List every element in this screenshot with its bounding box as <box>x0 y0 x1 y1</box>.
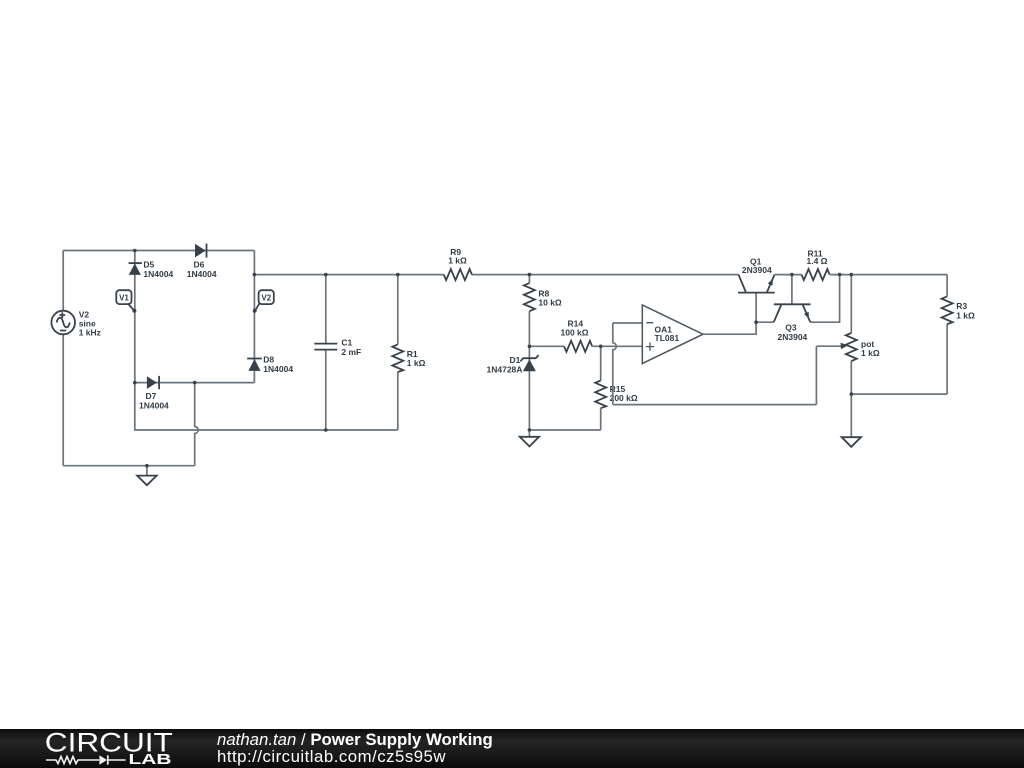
svg-text:200 kΩ: 200 kΩ <box>610 393 638 403</box>
wire bottom-right rail <box>851 393 947 395</box>
wire bottom-left rail <box>63 465 195 467</box>
CircuitLab logo <box>0 729 200 768</box>
wire Q3 base <box>791 275 793 305</box>
wire R11 right to rail corner <box>830 274 948 276</box>
transistor Q1 <box>738 292 775 294</box>
node junction dots <box>133 249 853 468</box>
svg-text:1 kΩ: 1 kΩ <box>861 348 880 358</box>
resistor R1 leads <box>397 275 399 430</box>
diode D7 <box>147 376 157 389</box>
wire D8 branch vertical <box>253 251 255 383</box>
resistor R15 <box>595 381 606 409</box>
wire output rail left of R9 <box>254 274 443 276</box>
wire source top lead <box>62 251 64 311</box>
wire pot wiper <box>816 345 841 347</box>
diode D5 <box>129 262 142 264</box>
resistor R14 <box>564 341 592 352</box>
node flag V2 <box>255 303 259 310</box>
wire D1 to R15 bottom rail <box>529 429 600 431</box>
wire op-amp output <box>703 322 756 334</box>
resistor R8 <box>524 283 535 311</box>
wire bridge left lower vertical and ground rail <box>135 383 398 430</box>
svg-text:D8: D8 <box>263 355 274 365</box>
wire minus input <box>613 322 643 324</box>
svg-text:1N4004: 1N4004 <box>187 269 217 279</box>
capacitor C1 leads <box>325 275 327 430</box>
svg-text:10 kΩ: 10 kΩ <box>538 298 562 308</box>
svg-text:V2: V2 <box>261 293 271 302</box>
svg-text:LAB: LAB <box>129 752 172 768</box>
svg-text:1 kΩ: 1 kΩ <box>448 255 467 265</box>
wire Q3 emitter lead <box>810 275 839 323</box>
wire pot bottom to ground <box>850 394 852 437</box>
diode D6 <box>195 244 206 258</box>
wire Q1 emitter to R11 <box>775 274 802 276</box>
svg-text:1N4004: 1N4004 <box>263 364 293 374</box>
resistor R3 leads <box>946 275 948 395</box>
wire D1 branch <box>528 346 530 430</box>
op-amp OA1 <box>642 305 703 364</box>
wire ground stub left <box>146 466 148 476</box>
resistor R9 <box>444 269 472 280</box>
transistor Q3 <box>774 303 811 305</box>
resistor R1 <box>392 344 403 372</box>
voltage source V2 <box>51 311 75 335</box>
wire Q1 base <box>755 293 757 323</box>
wire vertical with hop to bottom rail <box>195 383 199 466</box>
resistor R8 leads <box>528 275 530 347</box>
wire top-left rail <box>63 250 254 252</box>
svg-text:1 kΩ: 1 kΩ <box>407 358 426 368</box>
diode D8 <box>247 358 262 360</box>
svg-text:2 mF: 2 mF <box>341 347 361 357</box>
ground (bottom left) <box>137 476 156 486</box>
node flag V1 <box>128 303 134 310</box>
wire feedback bottom rail <box>613 404 817 406</box>
svg-text:1 kΩ: 1 kΩ <box>956 310 975 320</box>
ground (under D1) <box>528 430 530 437</box>
svg-text:1N4728A: 1N4728A <box>487 364 523 374</box>
wire feedback riser <box>815 346 817 404</box>
svg-text:1N4004: 1N4004 <box>143 269 173 279</box>
wire pot top lead <box>850 275 852 395</box>
svg-text:V1: V1 <box>119 293 129 302</box>
svg-text:1N4004: 1N4004 <box>139 400 169 410</box>
wire feedback vertical with hop <box>613 323 617 405</box>
wire R14 to plus input <box>592 345 642 347</box>
wire Q3 collector lead <box>756 321 774 323</box>
resistor R3 <box>942 296 953 324</box>
capacitor C1 <box>314 344 337 350</box>
wire R14 row left lead <box>529 345 564 347</box>
resistor R15 leads <box>600 346 602 430</box>
resistor R11 <box>802 269 830 280</box>
svg-text:1 kHz: 1 kHz <box>79 328 101 338</box>
zener diode D1 <box>520 355 538 361</box>
ground (under pot) <box>842 437 861 447</box>
svg-text:TL081: TL081 <box>655 333 680 343</box>
svg-text:1.4 Ω: 1.4 Ω <box>807 256 828 266</box>
svg-text:2N3904: 2N3904 <box>778 332 808 342</box>
svg-text:2N3904: 2N3904 <box>742 265 772 275</box>
wire output rail right of R9 <box>472 274 739 276</box>
wire source bottom lead <box>62 334 64 466</box>
wire D5 branch vertical <box>134 251 136 383</box>
wire D7 row <box>135 382 255 384</box>
svg-text:100 kΩ: 100 kΩ <box>561 328 589 338</box>
potentiometer pot <box>846 333 857 361</box>
